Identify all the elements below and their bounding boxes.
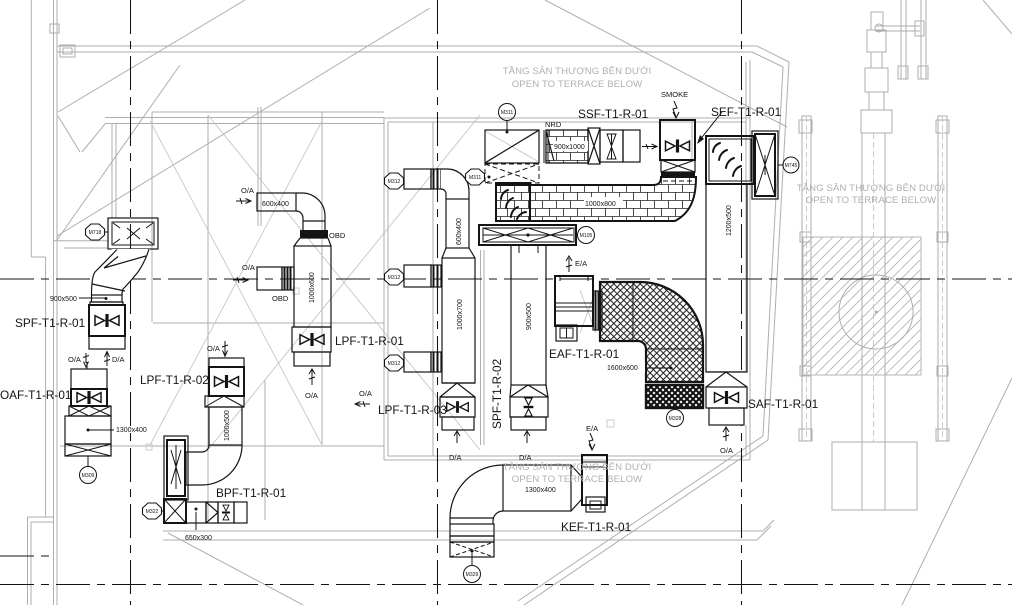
svg-text:M312: M312: [388, 275, 401, 281]
LPF-T1-R-01 outlet box: [294, 352, 330, 366]
smoke fan casing: [660, 120, 695, 160]
svg-text:600x400: 600x400: [262, 201, 289, 208]
parapet bottom-left step: [28, 517, 54, 605]
svg-text:650x300: 650x300: [185, 535, 212, 542]
svg-text:OPEN TO TERRACE BELOW: OPEN TO TERRACE BELOW: [512, 79, 643, 90]
inner wall line with jog: [31, 0, 45, 517]
SPF-T1-R-01 offset bend duct: [91, 249, 150, 295]
LPF-T1-R-01 duct 1000x600: [294, 246, 331, 327]
KEF-T1-R-01 duct 1300x400: [503, 465, 571, 511]
svg-text:OAF-T1-R-01: OAF-T1-R-01: [0, 388, 71, 402]
KEF-T1-R-01 damper dashed: [450, 542, 494, 557]
svg-text:M309: M309: [82, 473, 95, 479]
svg-text:1000x600: 1000x600: [309, 272, 316, 303]
SPF-T1-R-01 flex collar: [92, 295, 123, 302]
svg-text:SPF-T1-R-01: SPF-T1-R-01: [15, 316, 85, 330]
svg-text:600x400: 600x400: [456, 218, 463, 245]
NRD damper line: [546, 131, 554, 161]
SPF O/A arrow: [83, 353, 89, 367]
LPF-T1-R-01 transition top: [294, 238, 331, 246]
SPF-T1-R-02 transition: [510, 385, 548, 397]
svg-text:M312: M312: [388, 361, 401, 367]
SPF-T1-R-01 outlet box: [89, 336, 125, 349]
SPF-T1-R-02 D/A arrow: [524, 431, 530, 443]
LPF-T1-R-03 D/A arrow: [454, 431, 460, 443]
duct 600x400: [446, 199, 469, 248]
OAF-T1-R-01 base frame: [65, 444, 111, 456]
svg-text:M322: M322: [146, 509, 159, 515]
KEF-T1-R-01 elbow: [450, 465, 503, 524]
BPF-T1-R-01 cone: [206, 502, 218, 523]
svg-text:SPF-T1-R-02: SPF-T1-R-02: [490, 359, 504, 429]
terrace post east: [938, 116, 947, 441]
KEF-T1-R-01 fan: [582, 455, 607, 505]
BPF-T1-R-01 inlet section: [164, 499, 186, 523]
tag M310: [466, 169, 485, 185]
post top squares: [799, 120, 812, 133]
SSF flex X joint: [588, 128, 600, 164]
plant room inner wall: [388, 62, 746, 456]
roof diagonal parallel upper: [58, 0, 245, 112]
svg-text:O/A: O/A: [68, 355, 81, 364]
equipment rails: [901, 0, 926, 79]
SSF plenum gray X: [485, 131, 539, 162]
EAF insulated elbow 1600x600: [600, 282, 703, 382]
SSF fire damper: [600, 130, 623, 162]
OAF-T1-R-01 inlet box: [71, 369, 107, 389]
svg-text:OBD: OBD: [272, 294, 289, 303]
tag M328: [667, 410, 684, 427]
tag M329: [471, 553, 473, 566]
OAF-T1-R-01 fan casing: [71, 389, 107, 406]
svg-text:E/A: E/A: [586, 424, 598, 433]
svg-text:M311: M311: [469, 175, 482, 181]
post centerlines dash: [807, 116, 943, 441]
svg-text:LPF-T1-R-01: LPF-T1-R-01: [335, 334, 404, 348]
label 900x1000: [553, 141, 588, 151]
svg-text:TẦNG SÂN THƯỢNG BÊN DƯỚI: TẦNG SÂN THƯỢNG BÊN DƯỚI: [797, 183, 946, 194]
equipment stack: [871, 12, 883, 30]
1600x600 leader: [646, 367, 671, 369]
grid horizontal 2: [0, 584, 1012, 586]
top edge access box: [60, 45, 75, 57]
svg-text:LPF-T1-R-03: LPF-T1-R-03: [378, 403, 447, 417]
svg-text:O/A: O/A: [305, 391, 318, 400]
svg-text:900x1000: 900x1000: [554, 144, 585, 151]
steep site diagonal: [902, 378, 1012, 605]
SPF-T1-R-02 damper: [510, 397, 548, 417]
wide column: [862, 133, 885, 442]
EAF-T1-R-01 motor box: [556, 325, 577, 341]
top-right corner diagonal: [983, 0, 1012, 34]
LPF-T1-R-03 outlet box: [442, 417, 474, 430]
svg-text:BPF-T1-R-01: BPF-T1-R-01: [216, 486, 286, 500]
M312 stub duct low: [404, 352, 431, 372]
grid horizontal 1: [0, 278, 1012, 280]
LPF-T1-R-03 transition: [440, 383, 475, 397]
EAF dense silencer block: [646, 385, 703, 408]
svg-text:1200x500: 1200x500: [726, 205, 733, 236]
label 1000x800: [584, 197, 623, 208]
small column marker b: [607, 420, 614, 427]
smoke fan transition: [661, 160, 695, 172]
top-left corner square: [50, 24, 59, 33]
wall stub x267: [264, 380, 266, 520]
EAF flexible cone gray X: [580, 290, 596, 333]
SPF D/A arrow: [104, 352, 110, 367]
svg-text:OPEN TO TERRACE BELOW: OPEN TO TERRACE BELOW: [806, 195, 937, 206]
tag M309: [87, 456, 89, 467]
terrace post west: [802, 116, 811, 441]
SAF-T1-R-01 transition: [706, 372, 747, 387]
svg-text:M745: M745: [785, 163, 798, 169]
parapet left edge double line: [54, 0, 58, 605]
future duct dashed box: [485, 164, 539, 183]
roof diagonal right: [545, 0, 787, 127]
LPF-T1-R-01 neck: [303, 221, 325, 230]
SSF intake plenum: [485, 130, 539, 163]
svg-text:OBD: OBD: [329, 231, 346, 240]
tag M745: [783, 157, 799, 173]
small column marker c: [293, 288, 299, 294]
SPF-T1-R-01 damper symbol: [95, 314, 119, 327]
lower gray box 3-bay: [832, 442, 917, 510]
SAF-T1-R-01 duct 1200x500: [706, 184, 747, 372]
wall line x208: [207, 115, 209, 520]
svg-text:SAF-T1-R-01: SAF-T1-R-01: [748, 397, 818, 411]
lower terrace edge chamfer: [757, 520, 774, 540]
tag M718: [86, 224, 105, 240]
LPF-T1-R-02 fan casing: [209, 367, 244, 396]
svg-text:O/A: O/A: [720, 446, 733, 455]
SAF O/A arrow: [723, 427, 729, 441]
duct 1000x700: [442, 258, 475, 383]
KEF-T1-R-01 drop collar: [450, 524, 494, 536]
flow arrow: [642, 144, 657, 149]
OAF-T1-R-01 transition: [69, 406, 111, 416]
parapet top edge double line: [57, 46, 757, 52]
left room bottom edge: [60, 445, 384, 447]
LPF-T1-R-02 O/A arrow: [222, 341, 228, 357]
SPF-T1-R-01 intake louvre box: [108, 218, 158, 249]
center bay X brace: [208, 115, 480, 450]
label 1600x600: [606, 362, 645, 372]
svg-text:O/A: O/A: [241, 186, 254, 195]
equipment arm: [875, 26, 920, 31]
SEF label leader: [699, 112, 722, 141]
left room west wall: [151, 112, 153, 322]
tag M311: [499, 104, 516, 121]
SAF white backing: [706, 372, 747, 425]
left room X brace: [150, 121, 322, 445]
svg-text:M312: M312: [388, 179, 401, 185]
BPF-T1-R-01 damper: [218, 502, 234, 523]
left room top edge: [105, 112, 384, 124]
LPF-T1-R-01 side O/A arrow: [233, 277, 248, 283]
svg-text:NRD: NRD: [545, 120, 562, 129]
small column marker a: [146, 444, 152, 450]
M312 stub duct mid: [404, 265, 431, 287]
900x500 leader: [79, 297, 105, 299]
LPF-T1-R-02 elbow: [186, 445, 242, 485]
SPF-T1-R-02 duct 900x500: [511, 245, 546, 385]
svg-text:900x500: 900x500: [526, 303, 533, 330]
svg-text:900x500: 900x500: [50, 296, 77, 303]
svg-text:OPEN TO TERRACE BELOW: OPEN TO TERRACE BELOW: [512, 474, 643, 485]
grid horizontal stub: [0, 555, 55, 557]
roof hatch opening: [803, 237, 921, 375]
M312 stub duct top: [404, 169, 431, 189]
svg-text:O/A: O/A: [207, 344, 220, 353]
plant room partition x433: [432, 122, 434, 456]
plant room outer wall: [384, 60, 750, 460]
lower terrace edge double line: [163, 531, 763, 540]
left room east wall: [321, 112, 323, 445]
SAF-T1-R-01 outlet box: [709, 408, 744, 425]
plant room partition x692: [691, 122, 693, 162]
svg-text:KEF-T1-R-01: KEF-T1-R-01: [561, 520, 631, 534]
svg-text:1000x700: 1000x700: [457, 299, 464, 330]
LPF-T1-R-03 O/A arrow: [355, 401, 370, 407]
svg-text:1600x600: 1600x600: [607, 365, 638, 372]
LPF-T1-R-01 O/A arrow bottom: [309, 369, 315, 385]
svg-text:D/A: D/A: [449, 453, 462, 462]
LPF-T1-R-01 duct 600x400: [257, 193, 296, 211]
hatch circle: [839, 275, 913, 349]
SMOKE arrow: [673, 101, 679, 118]
grid vertical 4: [741, 0, 743, 605]
smoke duct bend to 1000x800: [496, 177, 696, 221]
LPF-T1-R-03 damper: [440, 397, 475, 417]
svg-text:1300x400: 1300x400: [525, 487, 556, 494]
SSF duct 900x1000: [546, 130, 588, 163]
post clamp squares: [800, 232, 811, 242]
OAF O/A entry arrows: [86, 362, 88, 369]
SPF-T1-R-01 fan casing: [89, 305, 125, 336]
svg-text:TẦNG SÂN THƯỢNG BÊN DƯỚI: TẦNG SÂN THƯỢNG BÊN DƯỚI: [503, 66, 652, 77]
smoke duct acoustic box: [496, 183, 530, 221]
roof diagonal long: [57, 8, 430, 236]
svg-text:SEF-T1-R-01: SEF-T1-R-01: [711, 105, 781, 119]
svg-text:M105: M105: [580, 233, 593, 239]
post base squares: [799, 429, 812, 441]
LPF-T1-R-01 side stub duct: [257, 267, 282, 290]
LPF-T1-R-02 transition: [205, 396, 244, 407]
roof diagonal steep: [57, 65, 180, 240]
KEF E/A arrow: [589, 433, 595, 450]
LPF-T1-R-02 duct 1000x500: [209, 407, 242, 445]
LPF-T1-R-01 side stub flex: [282, 267, 294, 290]
svg-text:SMOKE: SMOKE: [661, 90, 688, 99]
left room mid shelf line: [153, 322, 384, 324]
tag M322: [143, 503, 162, 519]
transition to 1000x700: [442, 248, 475, 258]
EAF duct separator: [646, 382, 703, 385]
parapet bottom-right diagonal double line: [518, 436, 768, 605]
grid vertical 1: [130, 0, 132, 605]
svg-text:M311: M311: [501, 110, 514, 116]
LPF-T1-R-01 elbow top: [296, 193, 325, 221]
SEF-T1-R-01 acoustic box: [706, 136, 754, 184]
svg-text:1300x400: 1300x400: [116, 427, 147, 434]
grid vertical 3: [437, 0, 439, 605]
OAF-T1-R-01 plenum box: [65, 416, 111, 444]
SEF-T1-R-01 fan casing: [752, 131, 778, 199]
svg-text:O/A: O/A: [242, 263, 255, 272]
svg-text:SSF-T1-R-01: SSF-T1-R-01: [578, 107, 648, 121]
BPF-T1-R-01 body: [186, 502, 206, 523]
svg-text:M718: M718: [89, 230, 102, 236]
LPF-T1-R-01 O/A arrow top: [236, 198, 251, 204]
terrace diagonal below BPF: [168, 533, 303, 605]
svg-text:EAF-T1-R-01: EAF-T1-R-01: [549, 347, 619, 361]
svg-text:D/A: D/A: [519, 453, 532, 462]
svg-text:TẦNG SÂN THƯỢNG BÊN DƯỚI: TẦNG SÂN THƯỢNG BÊN DƯỚI: [503, 462, 652, 473]
svg-text:1000x800: 1000x800: [585, 201, 616, 208]
BPF-T1-R-01 riser casing: [164, 436, 188, 500]
SPF-T1-R-02 outlet box: [511, 417, 546, 430]
parapet right edge double line: [763, 62, 789, 440]
svg-text:LPF-T1-R-02: LPF-T1-R-02: [140, 373, 209, 387]
EAF-T1-R-01 flex connector: [593, 291, 602, 330]
svg-text:M329: M329: [466, 572, 479, 578]
LPF-T1-R-01 OBD band: [300, 230, 328, 238]
svg-text:D/A: D/A: [112, 355, 125, 364]
svg-text:M328: M328: [669, 416, 682, 422]
BPF-T1-R-01 outlet: [234, 502, 247, 523]
M105 exhaust grille: [479, 225, 576, 245]
smoke fan flex band: [661, 172, 695, 177]
LPF-T1-R-02 inlet box: [209, 358, 244, 367]
ledge lines left of louvre: [54, 241, 108, 248]
LPF-T1-R-01 damper section: [292, 327, 331, 352]
plant room partition x479: [481, 250, 485, 445]
SSF outlet stub: [623, 130, 640, 162]
svg-text:O/A: O/A: [359, 389, 372, 398]
E/A arrow mid: [566, 256, 572, 272]
650x300 leader: [195, 512, 197, 530]
EAF-T1-R-01 fan unit: [555, 276, 593, 326]
KEF-T1-R-01 cone: [571, 465, 582, 511]
svg-text:E/A: E/A: [575, 259, 587, 268]
svg-text:1000x500: 1000x500: [224, 410, 231, 441]
funnel below corner: [58, 116, 105, 152]
wall pair x258: [258, 107, 261, 226]
parapet top-right chamfer: [752, 46, 789, 67]
SAF-T1-R-01 damper: [706, 387, 747, 408]
tag M105: [578, 227, 595, 244]
elbow to 600x400 riser: [441, 169, 469, 199]
wall line pair x112: [112, 124, 116, 218]
